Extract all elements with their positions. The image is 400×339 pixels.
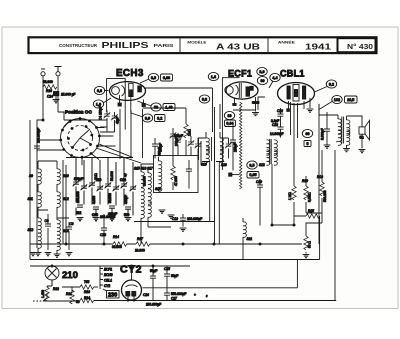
svg-text:550.000μF: 550.000μF	[171, 292, 186, 296]
callout 8,9 / 0,88	[148, 73, 158, 81]
resistor R24	[80, 298, 94, 302]
capacitor C28	[101, 228, 107, 230]
svg-text:3,9: 3,9	[259, 70, 264, 74]
trimmer C3	[111, 114, 118, 120]
svg-text:100.000pF: 100.000pF	[187, 217, 202, 221]
svg-text:S19: S19	[201, 163, 207, 167]
capacitor C7 column	[230, 140, 236, 142]
callout 6,3	[94, 86, 104, 94]
capacitor C6c	[188, 140, 195, 146]
svg-text:CY2: CY2	[120, 264, 142, 276]
svg-text:C14: C14	[120, 178, 126, 182]
svg-text:S18: S18	[155, 187, 161, 191]
svg-text:50.000: 50.000	[110, 171, 114, 181]
svg-text:0,88: 0,88	[163, 76, 170, 80]
svg-text:6,3: 6,3	[202, 97, 207, 101]
svg-text:R19: R19	[302, 179, 308, 183]
svg-text:330pF: 330pF	[74, 177, 83, 181]
callout 8,9 / 0,64	[224, 111, 234, 119]
svg-text:102: 102	[334, 98, 340, 102]
callout 102 / 20,5	[332, 95, 342, 103]
capacitor C6b 300uF	[175, 138, 182, 144]
svg-text:1941: 1941	[305, 42, 332, 51]
capacitor C30	[324, 129, 330, 131]
svg-text:S15 S16 S17: S15 S16 S17	[134, 167, 153, 171]
rotary switch wafer	[59, 117, 100, 159]
callout 56 / 1,48	[151, 103, 161, 111]
ground row under coils	[38, 228, 69, 254]
capacitor C9	[66, 227, 72, 229]
wire terminal drops	[43, 76, 58, 87]
svg-text:R21: R21	[66, 292, 72, 296]
svg-text:50: 50	[76, 300, 80, 304]
svg-text:1,8: 1,8	[96, 102, 101, 106]
svg-text:C28: C28	[100, 233, 106, 237]
resistor R16 50Ω	[304, 236, 308, 250]
svg-text:C26: C26	[143, 293, 149, 297]
resistor R13 1MΩ	[292, 186, 296, 200]
svg-text:1 MΩ: 1 MΩ	[288, 192, 292, 200]
trimmer C20	[195, 142, 202, 148]
pin wires CBL1	[289, 98, 311, 186]
svg-text:36.500: 36.500	[112, 245, 122, 249]
antenna terminal A	[56, 72, 60, 76]
svg-text:230: 230	[108, 293, 117, 299]
svg-text:C27: C27	[171, 297, 177, 301]
svg-text:100.000pF: 100.000pF	[100, 215, 115, 219]
shielded braid wire	[240, 102, 242, 189]
ground row oscillator	[77, 218, 84, 221]
svg-text:S22: S22	[259, 163, 265, 167]
oscillator module box S18	[154, 156, 199, 193]
capacitor C11	[186, 169, 192, 171]
pin wires ECH3	[120, 95, 144, 114]
heater chain bracket	[100, 266, 103, 289]
svg-text:56.000: 56.000	[43, 80, 53, 84]
svg-text:300μF: 300μF	[174, 134, 183, 138]
svg-text:440pF: 440pF	[124, 195, 128, 204]
coil S12	[57, 192, 60, 207]
svg-text:89: 89	[260, 79, 264, 83]
svg-text:0,95: 0,95	[249, 173, 256, 177]
ground row oscillator	[77, 218, 84, 221]
trimmer row under switch	[73, 180, 80, 186]
output transformer primary	[338, 119, 341, 134]
wire bottom rail	[43, 210, 336, 301]
svg-text:50.000: 50.000	[108, 193, 112, 203]
ground CBL1 pin	[307, 109, 314, 112]
wires from switch to coils	[37, 128, 141, 166]
wires coil columns	[38, 161, 69, 227]
svg-text:5: 5	[306, 142, 308, 146]
wire h-links oscillator	[64, 120, 115, 132]
svg-text:50μF: 50μF	[150, 269, 157, 273]
svg-text:56: 56	[154, 105, 158, 109]
svg-text:340μF: 340μF	[159, 143, 163, 152]
svg-text:ANNÉE: ANNÉE	[278, 39, 295, 44]
wire power top rail	[30, 265, 190, 267]
wires trimmer rows	[66, 158, 133, 216]
svg-text:100.000pF: 100.000pF	[146, 303, 161, 307]
trimmer C4	[104, 112, 111, 118]
trimmer C6	[170, 132, 177, 138]
speaker	[359, 127, 365, 134]
svg-text:CONSTRUCTEUR: CONSTRUCTEUR	[59, 43, 98, 48]
ground C13	[180, 228, 187, 231]
svg-text:100pF: 100pF	[234, 143, 238, 152]
ground osc	[159, 210, 166, 213]
dial lamp	[45, 266, 59, 280]
ground ECF1 pin	[252, 113, 259, 116]
svg-text:R15: R15	[308, 209, 314, 213]
capacitor C15	[77, 205, 83, 207]
antenna symbol	[41, 67, 62, 72]
coil S14	[57, 220, 60, 235]
svg-text:C24: C24	[47, 95, 53, 99]
wires transformer	[319, 104, 362, 148]
svg-text:R17: R17	[137, 237, 143, 241]
svg-text:50μF: 50μF	[171, 274, 178, 278]
capacitor C18	[125, 207, 131, 209]
resistor R21	[70, 290, 74, 304]
svg-text:510: 510	[124, 213, 130, 217]
node dots rail	[182, 243, 184, 245]
svg-text:S21: S21	[247, 237, 253, 241]
ECH3 shield box	[107, 79, 126, 130]
svg-text:14.000pF: 14.000pF	[270, 132, 284, 136]
svg-text:10.000: 10.000	[143, 176, 147, 186]
callout 5	[304, 141, 311, 147]
wire CBL1 column	[233, 97, 272, 224]
pin wires ECF1	[235, 97, 256, 112]
svg-text:PARIS: PARIS	[154, 43, 174, 48]
svg-text:C19: C19	[256, 180, 262, 184]
wire AVC links	[272, 213, 322, 229]
wire rail 259.5	[30, 260, 320, 288]
ground transformer	[343, 149, 350, 152]
svg-text:R20: R20	[46, 89, 52, 93]
node junction dots top left	[42, 119, 44, 121]
transformer core	[212, 137, 215, 161]
callout 6,3 IF	[199, 95, 209, 103]
wire rail 244	[63, 160, 302, 244]
svg-text:PHILIPS: PHILIPS	[102, 40, 150, 50]
callout 1,8 ECF1	[208, 72, 218, 80]
svg-text:Position OC: Position OC	[65, 110, 92, 115]
svg-text:ECF1: ECF1	[228, 69, 252, 79]
resistor R14	[113, 242, 127, 246]
svg-text:20,5: 20,5	[347, 98, 354, 102]
capacitor C17	[109, 206, 115, 208]
capacitor C17	[109, 206, 115, 208]
svg-text:3,5: 3,5	[249, 163, 254, 167]
ground	[55, 96, 57, 99]
transformer core	[342, 117, 344, 144]
callout 3,5	[247, 161, 257, 169]
capacitor C18	[125, 207, 131, 209]
svg-text:1.480: 1.480	[41, 290, 45, 298]
callout 3,9 / 89 ovals	[257, 67, 267, 75]
wire right bus	[319, 104, 335, 301]
svg-text:8,9: 8,9	[151, 76, 156, 80]
svg-text:5.000pF: 5.000pF	[321, 128, 325, 140]
svg-text:MODÈLE: MODÈLE	[187, 39, 206, 44]
output transformer secondary	[347, 120, 350, 135]
wires trimmer rows	[66, 158, 133, 216]
svg-text:0,64: 0,64	[226, 122, 233, 126]
wire grid column	[107, 109, 143, 159]
svg-text:210: 210	[62, 270, 78, 281]
svg-text:89: 89	[305, 132, 309, 136]
IF transformer S20	[220, 138, 223, 153]
wire left rail	[37, 87, 43, 248]
svg-text:735: 735	[84, 280, 90, 284]
coil S21	[243, 222, 246, 237]
capacitor C8	[45, 224, 51, 226]
coil S22	[267, 140, 270, 155]
svg-text:3,2: 3,2	[329, 82, 334, 86]
svg-text:ECH3: ECH3	[104, 273, 113, 277]
wire left rail bottom	[30, 120, 66, 260]
svg-text:N° 430: N° 430	[347, 42, 373, 51]
svg-text:100.000: 100.000	[76, 191, 80, 203]
svg-text:15.000 pF: 15.000 pF	[61, 93, 75, 97]
svg-text:C9: C9	[70, 222, 74, 226]
capacitor C1	[34, 146, 40, 148]
svg-text:4,4: 4,4	[272, 76, 277, 80]
resistor R17	[136, 242, 150, 246]
svg-text:512: 512	[76, 211, 82, 215]
earth terminal	[41, 72, 45, 76]
header box	[29, 37, 377, 53]
svg-text:C13: C13	[172, 217, 178, 221]
wire antenna to switch	[58, 87, 64, 120]
capacitor C16	[93, 207, 99, 209]
svg-text:89: 89	[227, 114, 231, 118]
wires to IF transformer	[141, 138, 201, 244]
svg-text:C23: C23	[272, 123, 278, 127]
svg-text:47.000: 47.000	[174, 176, 178, 186]
capacitor C16	[93, 207, 99, 209]
resistor R3	[184, 124, 188, 138]
svg-text:40pF: 40pF	[116, 117, 120, 124]
ground 50ohm	[303, 255, 310, 258]
svg-text:ECH3: ECH3	[116, 68, 144, 79]
svg-text:10.000: 10.000	[135, 249, 145, 253]
svg-text:R22: R22	[53, 287, 59, 291]
svg-text:R23: R23	[84, 290, 90, 294]
coil S18	[159, 161, 162, 176]
resistor R22 1.480	[45, 287, 49, 301]
callout 8,9 bottom	[302, 129, 312, 137]
svg-text:6,3: 6,3	[97, 89, 102, 93]
svg-text:R24: R24	[84, 296, 90, 300]
svg-text:ECF1: ECF1	[104, 268, 112, 272]
svg-text:R14: R14	[113, 235, 119, 239]
svg-text:C16: C16	[92, 213, 98, 217]
long verticals centre	[144, 88, 220, 244]
capacitor C15	[77, 205, 83, 207]
svg-text:C22: C22	[277, 109, 283, 113]
coil S10	[57, 169, 60, 184]
wires IF transformer	[198, 132, 229, 244]
svg-text:1,48: 1,48	[165, 105, 172, 109]
callout 8,9 / 3,2	[142, 114, 152, 122]
svg-text:510: 510	[96, 178, 102, 182]
svg-text:C4 100pF: C4 100pF	[99, 106, 103, 120]
svg-text:A 43 UB: A 43 UB	[216, 42, 260, 51]
resistor R20	[43, 85, 57, 89]
svg-text:50 Ω: 50 Ω	[308, 241, 312, 248]
trimmer row under switch	[73, 180, 80, 186]
trimmer C21	[225, 142, 232, 148]
capacitor C5	[152, 144, 158, 146]
wire rail 252 right riser	[319, 224, 321, 260]
svg-text:3,2: 3,2	[157, 116, 162, 120]
svg-text:1,8: 1,8	[211, 75, 216, 79]
ground speaker	[359, 150, 366, 153]
svg-text:CBL1: CBL1	[280, 69, 305, 79]
svg-text:CBL1: CBL1	[104, 279, 112, 283]
callout 4,4	[270, 73, 280, 81]
svg-text:S20: S20	[221, 163, 227, 167]
switch spokes	[72, 129, 91, 148]
svg-text:4.000: 4.000	[92, 196, 96, 204]
resistor R5 47.000	[171, 166, 175, 180]
svg-text:+: +	[194, 293, 196, 297]
svg-text:0,5MΩ: 0,5MΩ	[308, 192, 312, 202]
svg-text:CY2: CY2	[104, 284, 110, 288]
capacitor C24	[53, 92, 58, 96]
label 230 box	[107, 291, 120, 299]
svg-text:500.000: 500.000	[323, 190, 327, 202]
ECF1 shield box	[222, 78, 239, 170]
callout 3,2 CBL1	[326, 80, 336, 88]
callout 0,95	[247, 172, 259, 179]
svg-text:100.000pF: 100.000pF	[37, 128, 41, 143]
IF transformer S19	[206, 138, 209, 153]
callout 1,8	[93, 100, 103, 108]
svg-text:1MΩ: 1MΩ	[188, 129, 192, 136]
svg-text:8,9: 8,9	[145, 116, 150, 120]
